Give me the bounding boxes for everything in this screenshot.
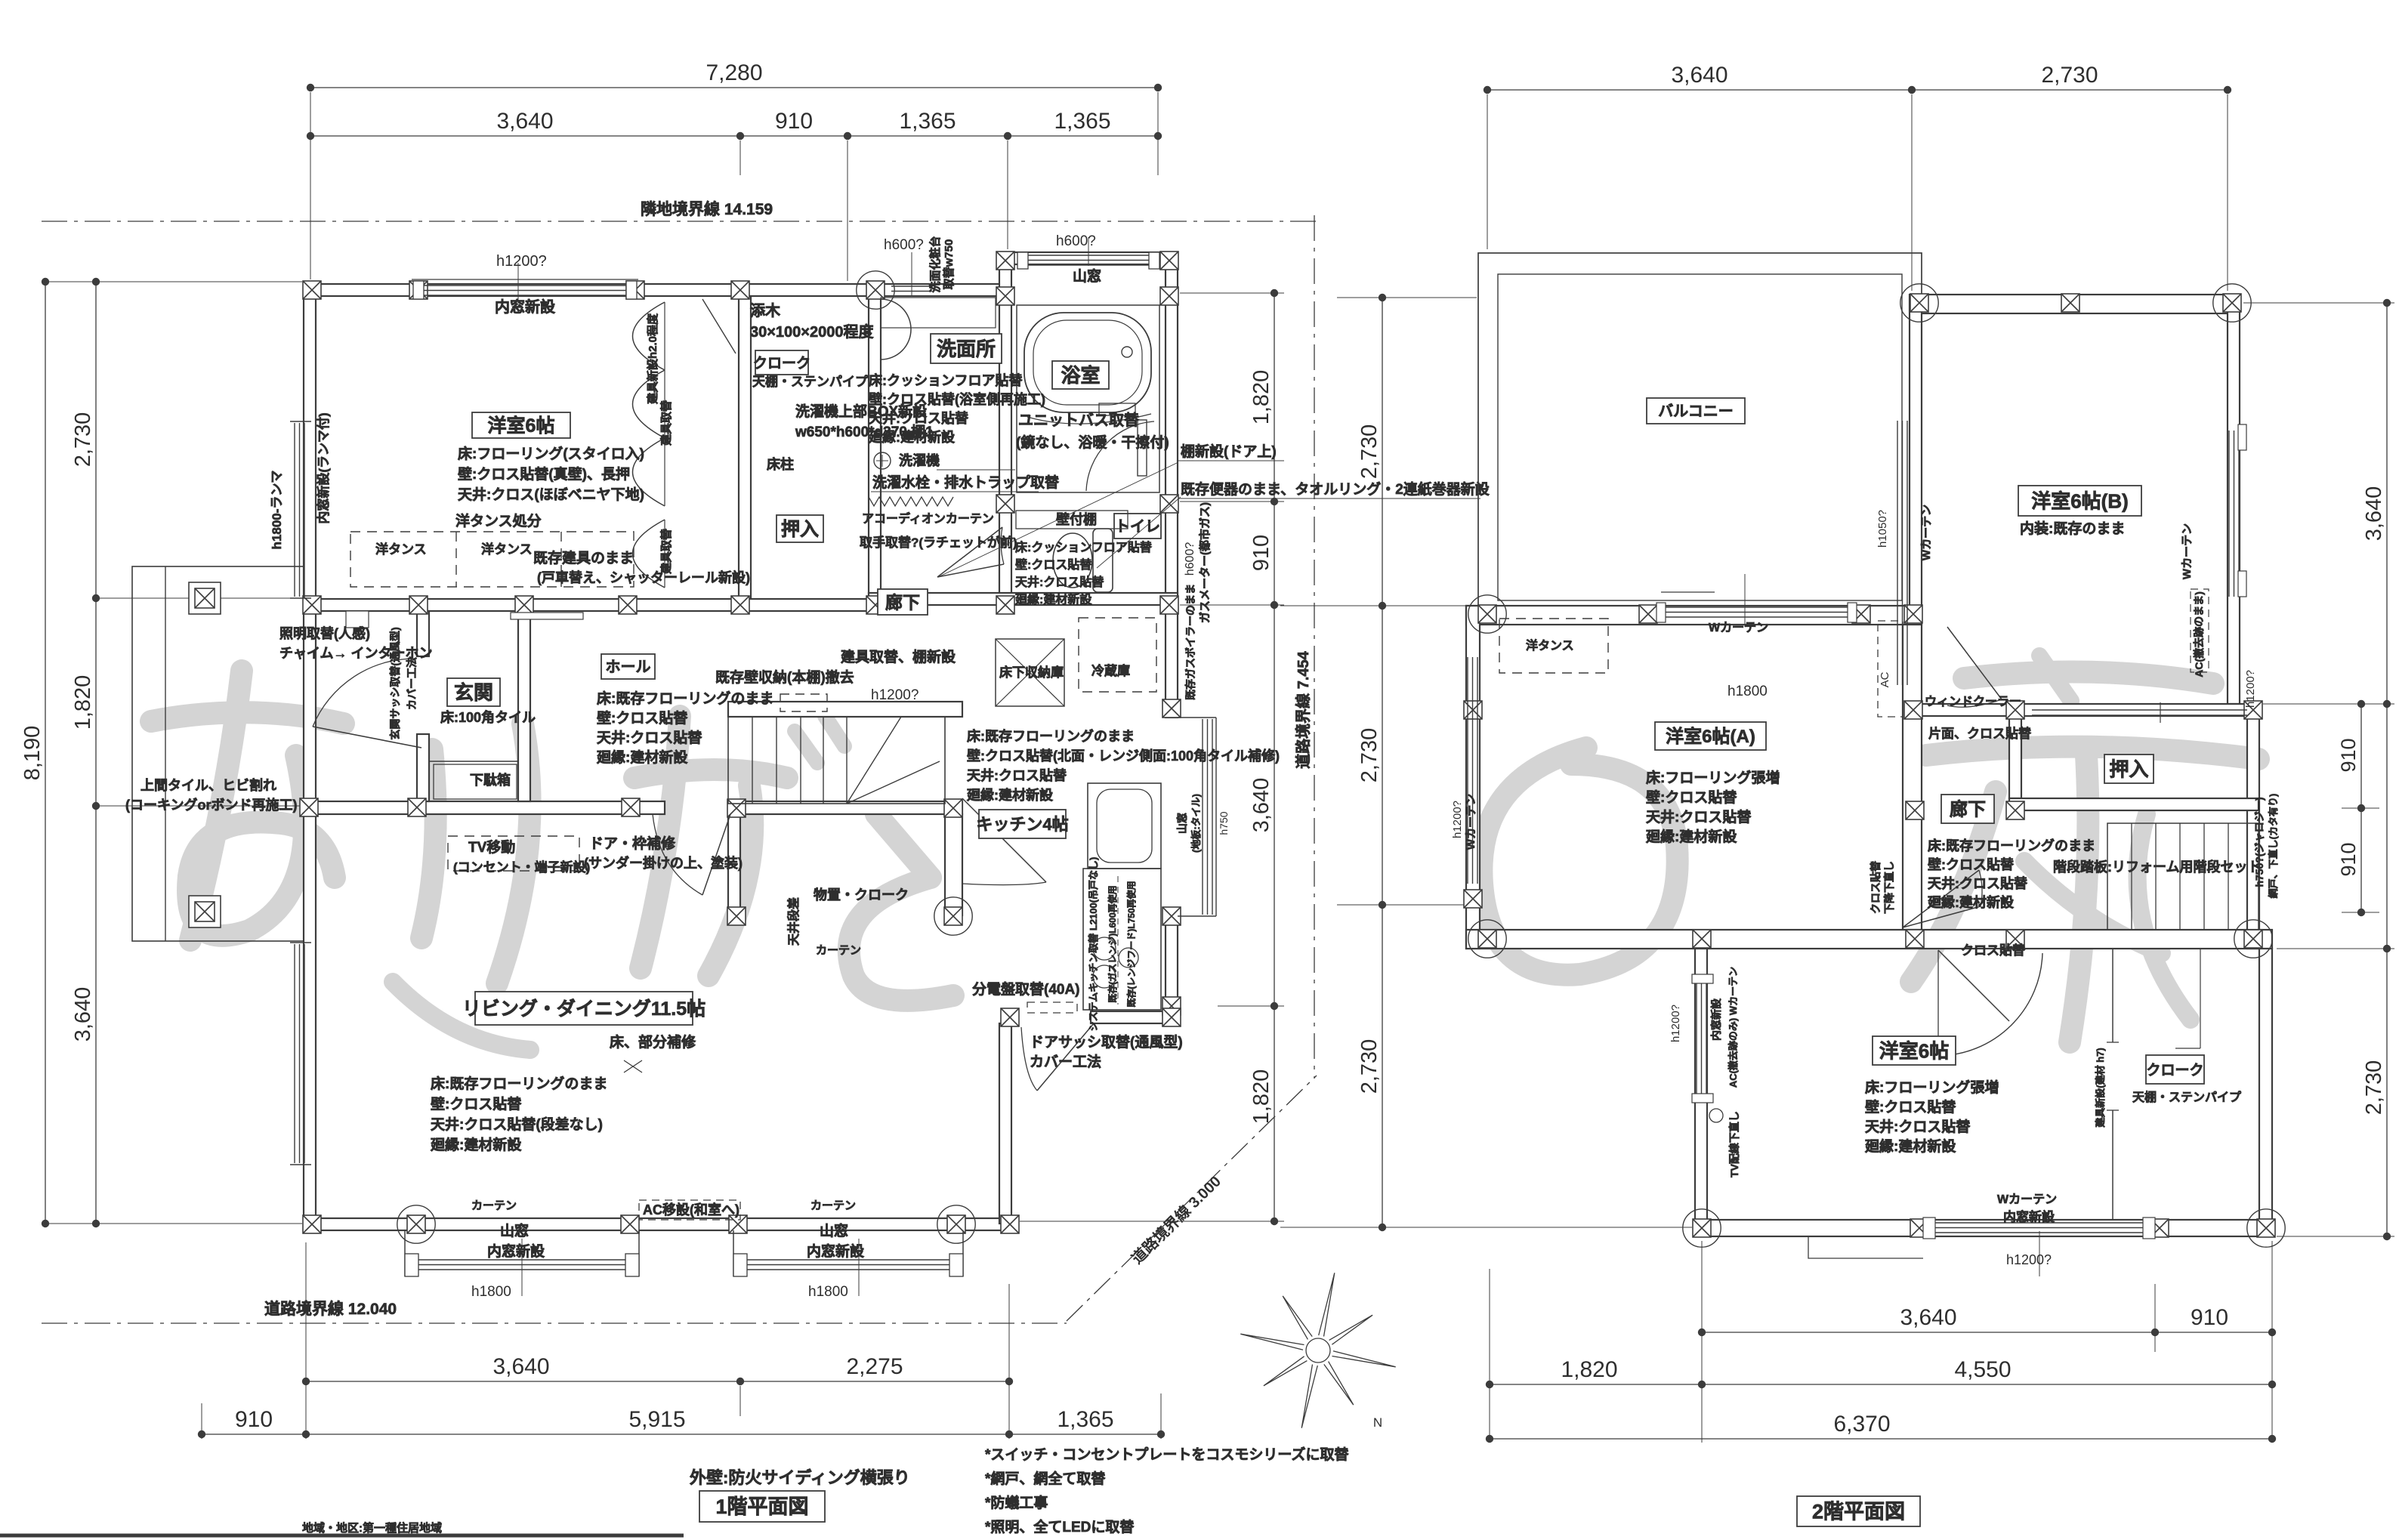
svg-text:洋室6帖(B): 洋室6帖(B) [2031,489,2129,512]
svg-text:玄関: 玄関 [454,681,493,704]
room label 洋室6帖(B) [2018,486,2141,516]
svg-text:トイレ: トイレ [1115,519,1160,535]
wardrobe dashed boxes bedroom1 [350,532,634,587]
svg-text:ドアサッシ取替(通風型): ドアサッシ取替(通風型) [1030,1033,1183,1051]
plan1 bedroom top window h1200 [412,279,638,280]
plan2 wardrobe dashed [1499,619,1608,673]
plan2 oshiire sliding doors [2032,709,2247,711]
svg-text:道路境界線 12.040: 道路境界線 12.040 [264,1300,397,1318]
svg-text:910: 910 [1249,535,1274,571]
svg-text:h1200?: h1200? [2244,670,2257,708]
plan1 right vertical wall to LD corner [999,1023,1011,1224]
svg-text:取手取替?(ラチェットが前): 取手取替?(ラチェットが前) [860,535,1017,550]
svg-text:Wカーテン: Wカーテン [1465,794,1477,850]
room label 押入 [777,515,823,542]
svg-text:天井:クロス貼替(段差なし): 天井:クロス貼替(段差なし) [431,1116,603,1133]
plan1 mid wall left of hall door [304,801,665,814]
svg-text:*照明、全てLEDに取替: *照明、全てLEDに取替 [985,1518,1135,1535]
svg-text:h1800: h1800 [808,1284,848,1300]
svg-text:アコーディオンカーテン: アコーディオンカーテン [862,511,994,526]
svg-text:山窓: 山窓 [820,1222,848,1239]
svg-text:30×100×2000程度: 30×100×2000程度 [750,323,874,341]
left dimension column 8,190 [45,282,46,1224]
svg-text:山窓: 山窓 [500,1222,529,1239]
road boundary diagonal 3.000 [1067,1076,1317,1321]
plan2 roomB right wall [2228,295,2240,704]
shelf mark below bedroom wall [511,613,583,619]
svg-text:クロス貼替: クロス貼替 [1961,943,2026,958]
svg-text:廻縁:建材新設: 廻縁:建材新設 [966,787,1054,803]
svg-text:建具新設h2.0程度: 建具新設h2.0程度 [646,313,659,404]
plan1 porch outline [132,566,304,941]
svg-text:カバー工法: カバー工法 [406,657,418,710]
title 2階平面図 [1797,1496,1920,1526]
room label 玄関 [447,678,500,706]
svg-text:浴室: 浴室 [1061,364,1100,387]
svg-text:内窓新設: 内窓新設 [495,298,556,316]
underfloor storage box [996,639,1064,706]
svg-text:天井:クロス貼替: 天井:クロス貼替 [1865,1118,1971,1135]
svg-text:3,640: 3,640 [1249,778,1274,833]
svg-text:h1800: h1800 [471,1284,511,1300]
plan2 A-hall door wedge [1903,870,1979,927]
svg-text:h600?: h600? [1056,233,1096,249]
svg-text:910: 910 [2337,738,2360,772]
svg-text:洗濯機: 洗濯機 [899,452,940,468]
svg-text:910: 910 [2337,842,2360,876]
plan2 balcony outline [1478,253,1922,619]
svg-text:洗面所: 洗面所 [937,338,996,360]
svg-text:外壁:防火サイディング横張り: 外壁:防火サイディング横張り [690,1468,910,1487]
plan1 closet right wall [739,296,751,599]
plan1 kitchen right wall lower [1166,916,1178,1023]
plan2 hall-B door [1947,627,2002,699]
plan2 roomA left wall [1466,606,1480,949]
svg-text:洋タンス: 洋タンス [481,542,533,557]
svg-text:道路境界線 7.454: 道路境界線 7.454 [1294,650,1312,768]
svg-text:バルコニー: バルコニー [1658,403,1734,420]
plan1 bedroom bottom wall [304,599,881,611]
plan1 closet bifold doors [633,302,665,370]
svg-text:2,730: 2,730 [71,412,95,468]
plan1 left window1 (bedroom) [294,423,295,597]
plan1 hall-toilet bottom wall [869,593,1178,605]
svg-text:2,275: 2,275 [846,1354,903,1379]
svg-text:天井:クロス貼替: 天井:クロス貼替 [1928,875,2028,891]
plan1 kitchen bottom wall segs [1008,1011,1018,1023]
plan1 bath top window yamado [1027,255,1150,256]
bottom dimension row 3,640 / 2,275 [306,1381,1009,1382]
svg-text:(コンセント・端子新設): (コンセント・端子新設) [453,859,590,875]
svg-text:内窓新設: 内窓新設 [2003,1209,2055,1224]
svg-text:h1200?: h1200? [1669,1005,1682,1042]
svg-text:(地板:タイル): (地板:タイル) [1190,794,1202,853]
svg-text:上間タイル、ヒビ割れ: 上間タイル、ヒビ割れ [140,777,276,793]
svg-text:カーテン: カーテン [816,944,861,957]
svg-text:添木: 添木 [750,301,781,319]
svg-text:h1050?: h1050? [1876,510,1889,548]
switchboard dashed box [1027,1002,1077,1013]
svg-text:2階平面図: 2階平面図 [1812,1501,1905,1523]
svg-text:(サンダー掛けの上、塗装): (サンダー掛けの上、塗装) [584,855,743,871]
svg-text:廻縁:建材新設: 廻縁:建材新設 [1014,592,1092,606]
svg-text:廊下: 廊下 [1950,799,1986,820]
svg-text:洗濯水栓・排水トラップ取替: 洗濯水栓・排水トラップ取替 [872,474,1060,491]
svg-text:(鏡なし、浴暖・干擦付): (鏡なし、浴暖・干擦付) [1016,434,1169,451]
plan2 column markers [1900,284,1938,322]
svg-text:床:クッションフロア貼替: 床:クッションフロア貼替 [869,372,1023,388]
plan2 kuroku divider line [2112,949,2113,1042]
svg-text:2,730: 2,730 [2362,1060,2386,1116]
plan2 bottom window h1200 [1923,1222,2155,1224]
room label クローク [755,350,808,375]
bathtub [1024,313,1151,412]
plan1 bath block top wall [999,252,1178,264]
plan1 kitchen exterior door [1037,1023,1094,1091]
plan2 oshiire-hall divider [2009,716,2021,798]
dimension extension lines top [310,92,311,279]
svg-text:床:既存フローリングのまま: 床:既存フローリングのまま [597,690,773,707]
svg-text:内窓新設: 内窓新設 [1710,998,1722,1041]
svg-text:壁:クロス貼替(北面・レンジ側面:100角タイル補修): 壁:クロス貼替(北面・レンジ側面:100角タイル補修) [967,748,1280,764]
plan2 AC dashed [1878,621,1903,717]
svg-text:玄関サッシ取替(通風型): 玄関サッシ取替(通風型) [389,627,401,739]
compass star [1240,1273,1395,1427]
plan1 mid wall right of hall door [730,801,962,814]
svg-text:洋室6帖: 洋室6帖 [488,415,555,437]
plan1 stairs dashed shelf [780,694,827,711]
plan2 bottom step lines [1808,1236,1923,1258]
room label 洗面所 [931,334,1002,363]
kitchen counter with burners [1083,869,1161,1010]
svg-text:洋タンス処分: 洋タンス処分 [455,512,542,529]
plan1 exterior top wall [304,284,1002,296]
svg-text:1,820: 1,820 [71,675,95,730]
svg-text:廊下: 廊下 [885,592,920,612]
plan2 TV outlet mark [1709,1109,1723,1122]
svg-text:2,730: 2,730 [1357,1039,1382,1094]
room label トイレ [1114,514,1161,539]
svg-text:洋タンス: 洋タンス [375,542,427,557]
svg-text:階段踏板:リフォーム用階段セット: 階段踏板:リフォーム用階段セット [2053,859,2261,875]
svg-text:h600?: h600? [884,237,924,253]
svg-text:1,365: 1,365 [899,109,956,134]
svg-text:天井段差: 天井段差 [786,897,801,946]
plan1 bath room inner outline [1017,305,1159,492]
plan2 A left window [1467,657,1468,884]
plan1 genkan step line [429,761,518,762]
svg-text:建具新設(建材 h7): 建具新設(建材 h7) [2095,1048,2106,1127]
svg-text:h1200?: h1200? [1451,801,1464,838]
svg-text:ホール: ホール [606,659,651,676]
plan1 staircase [728,717,945,804]
svg-text:床:既存フローリングのまま: 床:既存フローリングのまま [967,728,1135,744]
room label 廊下 2F [1941,795,1994,823]
svg-text:h1800-ランマ: h1800-ランマ [270,471,284,550]
svg-text:洋室6帖(A): 洋室6帖(A) [1666,726,1755,747]
svg-text:天井:クロス貼替: 天井:クロス貼替 [869,410,969,426]
svg-text:天井:クロス貼替: 天井:クロス貼替 [597,729,702,746]
plan2 balcony-B divider wall [1910,295,1922,606]
fridge dashed box [1079,618,1156,692]
plan2 roomA right wall (hall) [1903,625,1922,930]
svg-text:1,820: 1,820 [1249,370,1274,425]
svg-text:洋タンス: 洋タンス [1526,638,1574,653]
washbasin [881,299,911,360]
svg-text:1,365: 1,365 [1057,1407,1113,1432]
svg-text:既存便器のまま、タオルリング・2連紙巻器新設: 既存便器のまま、タオルリング・2連紙巻器新設 [1181,480,1490,498]
plan1 kitchen entry door [962,798,1046,882]
svg-text:廻縁:建材新設: 廻縁:建材新設 [1864,1137,1956,1155]
plan2 bottom dimensions [1702,1332,2272,1333]
plan2 roomA top window h1800 [1656,606,1857,608]
svg-text:910: 910 [2191,1305,2228,1330]
svg-text:冷蔵庫: 冷蔵庫 [1091,663,1130,678]
svg-text:910: 910 [235,1407,273,1432]
room label ホール [601,654,655,679]
svg-text:壁:クロス貼替: 壁:クロス貼替 [431,1095,522,1113]
svg-text:既存ガスボイラーのまま: 既存ガスボイラーのまま [1184,584,1196,700]
svg-text:4,550: 4,550 [1954,1357,2011,1382]
svg-text:カバー工法: カバー工法 [1030,1053,1101,1070]
room label バルコニー [1647,398,1745,424]
svg-text:洋室6帖: 洋室6帖 [1879,1039,1949,1062]
svg-text:取替w750: 取替w750 [942,239,956,290]
svg-text:3,640: 3,640 [2362,486,2386,542]
plan2 band bottom wall [1466,930,2272,949]
svg-text:h1200?: h1200? [871,687,919,703]
svg-text:3,640: 3,640 [1671,63,1727,88]
svg-text:建具取替: 建具取替 [659,400,673,446]
plan2 staircase [2107,823,2259,930]
svg-text:TV移動: TV移動 [468,838,515,856]
svg-text:壁:クロス貼替: 壁:クロス貼替 [1015,557,1091,572]
svg-text:押入: 押入 [781,519,819,540]
svg-text:壁:クロス貼替: 壁:クロス貼替 [597,709,688,727]
svg-text:h750?(ジャロジー): h750?(ジャロジー) [2253,797,2265,887]
svg-text:Wカーテン: Wカーテン [2181,523,2194,579]
room label 洋室6帖 2F bottom [1873,1036,1956,1065]
svg-text:TV配線下直し: TV配線下直し [1728,1111,1740,1177]
plan2 B right window [2228,431,2230,597]
svg-text:システムキッチン取替 L2100(吊戸なし): システムキッチン取替 L2100(吊戸なし) [1088,857,1099,1032]
svg-text:N: N [1373,1415,1382,1430]
plan2 oshiire top wall [1915,704,2259,716]
boundary line 14.159 top [42,221,1322,222]
plan1 bottom bay window 2 [733,1230,734,1276]
svg-text:天井:クロス貼替: 天井:クロス貼替 [1015,575,1104,589]
svg-text:2,730: 2,730 [1357,424,1382,480]
plan2 middle right wall [2247,704,2259,949]
svg-text:Wカーテン: Wカーテン [1997,1193,2057,1206]
svg-text:天棚・ステンパイプ: 天棚・ステンパイプ [752,374,869,389]
svg-text:6,370: 6,370 [1833,1412,1890,1437]
plan1 bottom bay window 1 [404,1230,406,1276]
plan1 washroom left wall [869,296,881,599]
svg-text:洗面化粧台: 洗面化粧台 [928,236,942,292]
svg-text:内窓新設: 内窓新設 [487,1242,545,1260]
svg-text:既存壁収納(本棚)撤去: 既存壁収納(本棚)撤去 [715,668,854,686]
room label 押入 2F [2104,755,2154,783]
svg-text:1階平面図: 1階平面図 [715,1495,808,1518]
plan1 bottom exterior wall [304,1218,1017,1230]
plan2 left dimension column [1382,298,1383,1227]
svg-text:1,820: 1,820 [1249,1069,1274,1125]
svg-text:カーテン: カーテン [810,1199,856,1212]
svg-text:キッチン4帖: キッチン4帖 [976,815,1068,834]
svg-text:建具取替: 建具取替 [659,528,673,574]
svg-text:h1200?: h1200? [496,253,547,270]
plan1 wall washroom-bath divider [999,296,1011,504]
room label キッチン4帖 [979,810,1066,838]
svg-text:壁:クロス貼替: 壁:クロス貼替 [1928,856,2015,872]
plan1 entrance door [313,727,421,748]
svg-text:分電盤取替(40A): 分電盤取替(40A) [972,980,1080,998]
plan1 LD-hall door [702,814,730,895]
bottom extension lines [305,1242,307,1439]
soegi diagonal strut [702,299,736,353]
svg-text:(コーキングorボンド再施工): (コーキングorボンド再施工) [125,797,297,813]
svg-text:壁付棚: 壁付棚 [1056,511,1097,527]
svg-text:ユニットバス取替: ユニットバス取替 [1018,411,1139,429]
plan1 entrance door wall segs [417,611,429,656]
svg-text:天井:クロス(ほぼベニヤ下地): 天井:クロス(ほぼベニヤ下地) [458,486,644,503]
svg-text:既存(レンジフード)L750再使用: 既存(レンジフード)L750再使用 [1125,881,1137,1007]
left dimension column 2,730/1,820/3,640 [95,282,97,1224]
room label 洋室6帖(A) [1655,722,1766,750]
plan1 kitchen bay window [1178,717,1216,718]
svg-text:床:既存フローリングのまま: 床:既存フローリングのまま [431,1075,607,1092]
svg-text:廻縁:建材新設: 廻縁:建材新設 [1645,828,1737,845]
svg-text:押入: 押入 [2109,758,2148,780]
svg-text:1,820: 1,820 [1561,1357,1617,1382]
dimension row 3,640/910/1,365/1,365 [310,135,1158,137]
plan1 genkan-hall divider wall [518,611,530,801]
plan1 left window2 (LD) [294,944,295,1163]
svg-text:床:クッションフロア貼替: 床:クッションフロア貼替 [1015,540,1152,554]
svg-text:棚新設(ドア上): 棚新設(ドア上) [1181,443,1277,460]
svg-text:カーテン: カーテン [471,1199,517,1212]
road boundary line 12.040 [42,1322,1067,1324]
plan1 left exterior wall [304,284,316,1224]
svg-text:照明取替(人感): 照明取替(人感) [279,625,370,641]
svg-text:910: 910 [775,109,813,134]
svg-text:天井:クロス貼替: 天井:クロス貼替 [967,767,1067,783]
svg-text:廻縁:建材新設: 廻縁:建材新設 [430,1136,522,1153]
svg-text:天棚・ステンパイプ: 天棚・ステンパイプ [2132,1090,2242,1104]
svg-text:下降下直し: 下降下直し [1883,861,1895,914]
accordion curtain wavy line [869,497,953,506]
plan2 top dimension 3,640 / 2,730 [1487,89,2228,91]
svg-text:廻縁:建材新設: 廻縁:建材新設 [1927,894,2015,910]
plan2 AC trace dashed right [2191,589,2209,672]
svg-text:壁:クロス貼替: 壁:クロス貼替 [1865,1098,1956,1116]
road boundary vertical 7.454 [1314,215,1315,1079]
svg-text:AC移設(和室へ): AC移設(和室へ) [643,1202,739,1217]
plan1 right wall upper (bath/toilet) [1166,252,1178,605]
svg-text:クローク: クローク [2146,1062,2203,1079]
svg-text:床:フローリング張増: 床:フローリング張増 [1865,1079,1999,1096]
plan2 right dimension column [2386,303,2388,1236]
room label 洋室6帖 [472,412,570,438]
washing machine mark [874,452,891,469]
svg-text:廻縁:建材新設: 廻縁:建材新設 [868,429,956,445]
bottom dimension row 910 / 5,915 / 1,365 [202,1434,1161,1435]
plan2 bottom-left window [1696,982,1697,1095]
plan1 column markers [303,281,321,299]
svg-text:h600?: h600? [1184,542,1196,576]
svg-text:クローク: クローク [753,355,810,372]
svg-text:h750: h750 [1218,811,1230,835]
svg-text:建具取替、棚新設: 建具取替、棚新設 [841,648,956,665]
left extension lines [45,281,302,282]
room label 浴室 [1052,361,1109,389]
svg-text:1,365: 1,365 [1054,109,1110,134]
svg-text:3,640: 3,640 [1900,1305,1956,1330]
svg-text:2,730: 2,730 [2041,63,2098,88]
svg-text:AC(撤去跡のまま): AC(撤去跡のまま) [2193,591,2205,677]
svg-text:地域・地区:第一種住居地域: 地域・地区:第一種住居地域 [302,1521,442,1535]
svg-text:Wカーテン: Wカーテン [1709,621,1768,634]
plan1 hall lower left wall [728,814,740,922]
svg-text:廻縁:建材新設: 廻縁:建材新設 [596,748,688,766]
washroom counter [881,298,996,328]
svg-text:床:100角タイル: 床:100角タイル [440,709,536,725]
plan2 hall-bottomroom door [1937,950,1939,1056]
plan1 washroom top window w750 [891,285,932,287]
svg-text:内装:既存のまま: 内装:既存のまま [2020,520,2125,537]
right dimension column plan1 [1274,293,1275,1221]
svg-text:AC: AC [1879,671,1891,687]
toilet [1053,533,1092,588]
bottom-left cut line [0,1534,684,1538]
svg-text:内窓新設: 内窓新設 [807,1242,865,1260]
plan1 bath block left wall [999,252,1011,299]
plan1 porch double columns [189,582,221,614]
svg-text:8,190: 8,190 [20,726,45,781]
svg-text:下駄箱: 下駄箱 [470,772,511,788]
svg-text:床:既存フローリングのまま: 床:既存フローリングのまま [1928,838,2095,853]
svg-text:3,640: 3,640 [496,109,553,134]
plan2 bottom room right wall [2259,949,2272,1236]
svg-text:*防蟻工事: *防蟻工事 [985,1494,1048,1511]
plan2 B left window [1897,421,1898,685]
svg-text:床柱: 床柱 [767,456,794,472]
plan2 roomB top wall [1912,295,2240,313]
svg-text:壁:クロス貼替(真壁)、長押: 壁:クロス貼替(真壁)、長押 [458,465,630,483]
svg-text:床、部分補修: 床、部分補修 [610,1033,696,1051]
plan2 bottom room left wall [1695,949,1707,1236]
svg-text:*網戸、網全て取替: *網戸、網全て取替 [985,1470,1106,1487]
svg-text:Wカーテン: Wカーテン [1920,505,1933,560]
right extension lines plan1 [1180,292,1284,294]
dimension 7,280 top of plan 1 [310,87,1158,88]
svg-text:隣地境界線 14.159: 隣地境界線 14.159 [641,200,773,218]
room label クローク 2F [2146,1055,2204,1084]
plan1 washroom door wedge [937,527,1002,577]
svg-text:床:フローリング張増: 床:フローリング張増 [1646,769,1780,786]
svg-text:天井:クロス貼替: 天井:クロス貼替 [1646,808,1752,826]
svg-text:壁:クロス貼替(浴室側再施工): 壁:クロス貼替(浴室側再施工) [869,391,1045,407]
svg-text:2,730: 2,730 [1357,728,1382,783]
svg-text:AC(撤去跡のみ) Wカーテン: AC(撤去跡のみ) Wカーテン [1727,967,1739,1088]
svg-text:山窓: 山窓 [1073,267,1101,285]
room label リビング・ダイニング11.5帖 [475,992,693,1025]
plan2 stairs top wall [2009,798,2259,810]
svg-text:ガスメーター(都市ガス): ガスメーター(都市ガス) [1198,502,1212,623]
kitchen counter with sink [1088,783,1161,869]
svg-text:既存(ガスレンジ)L600再使用: 既存(ガスレンジ)L600再使用 [1107,885,1118,1002]
